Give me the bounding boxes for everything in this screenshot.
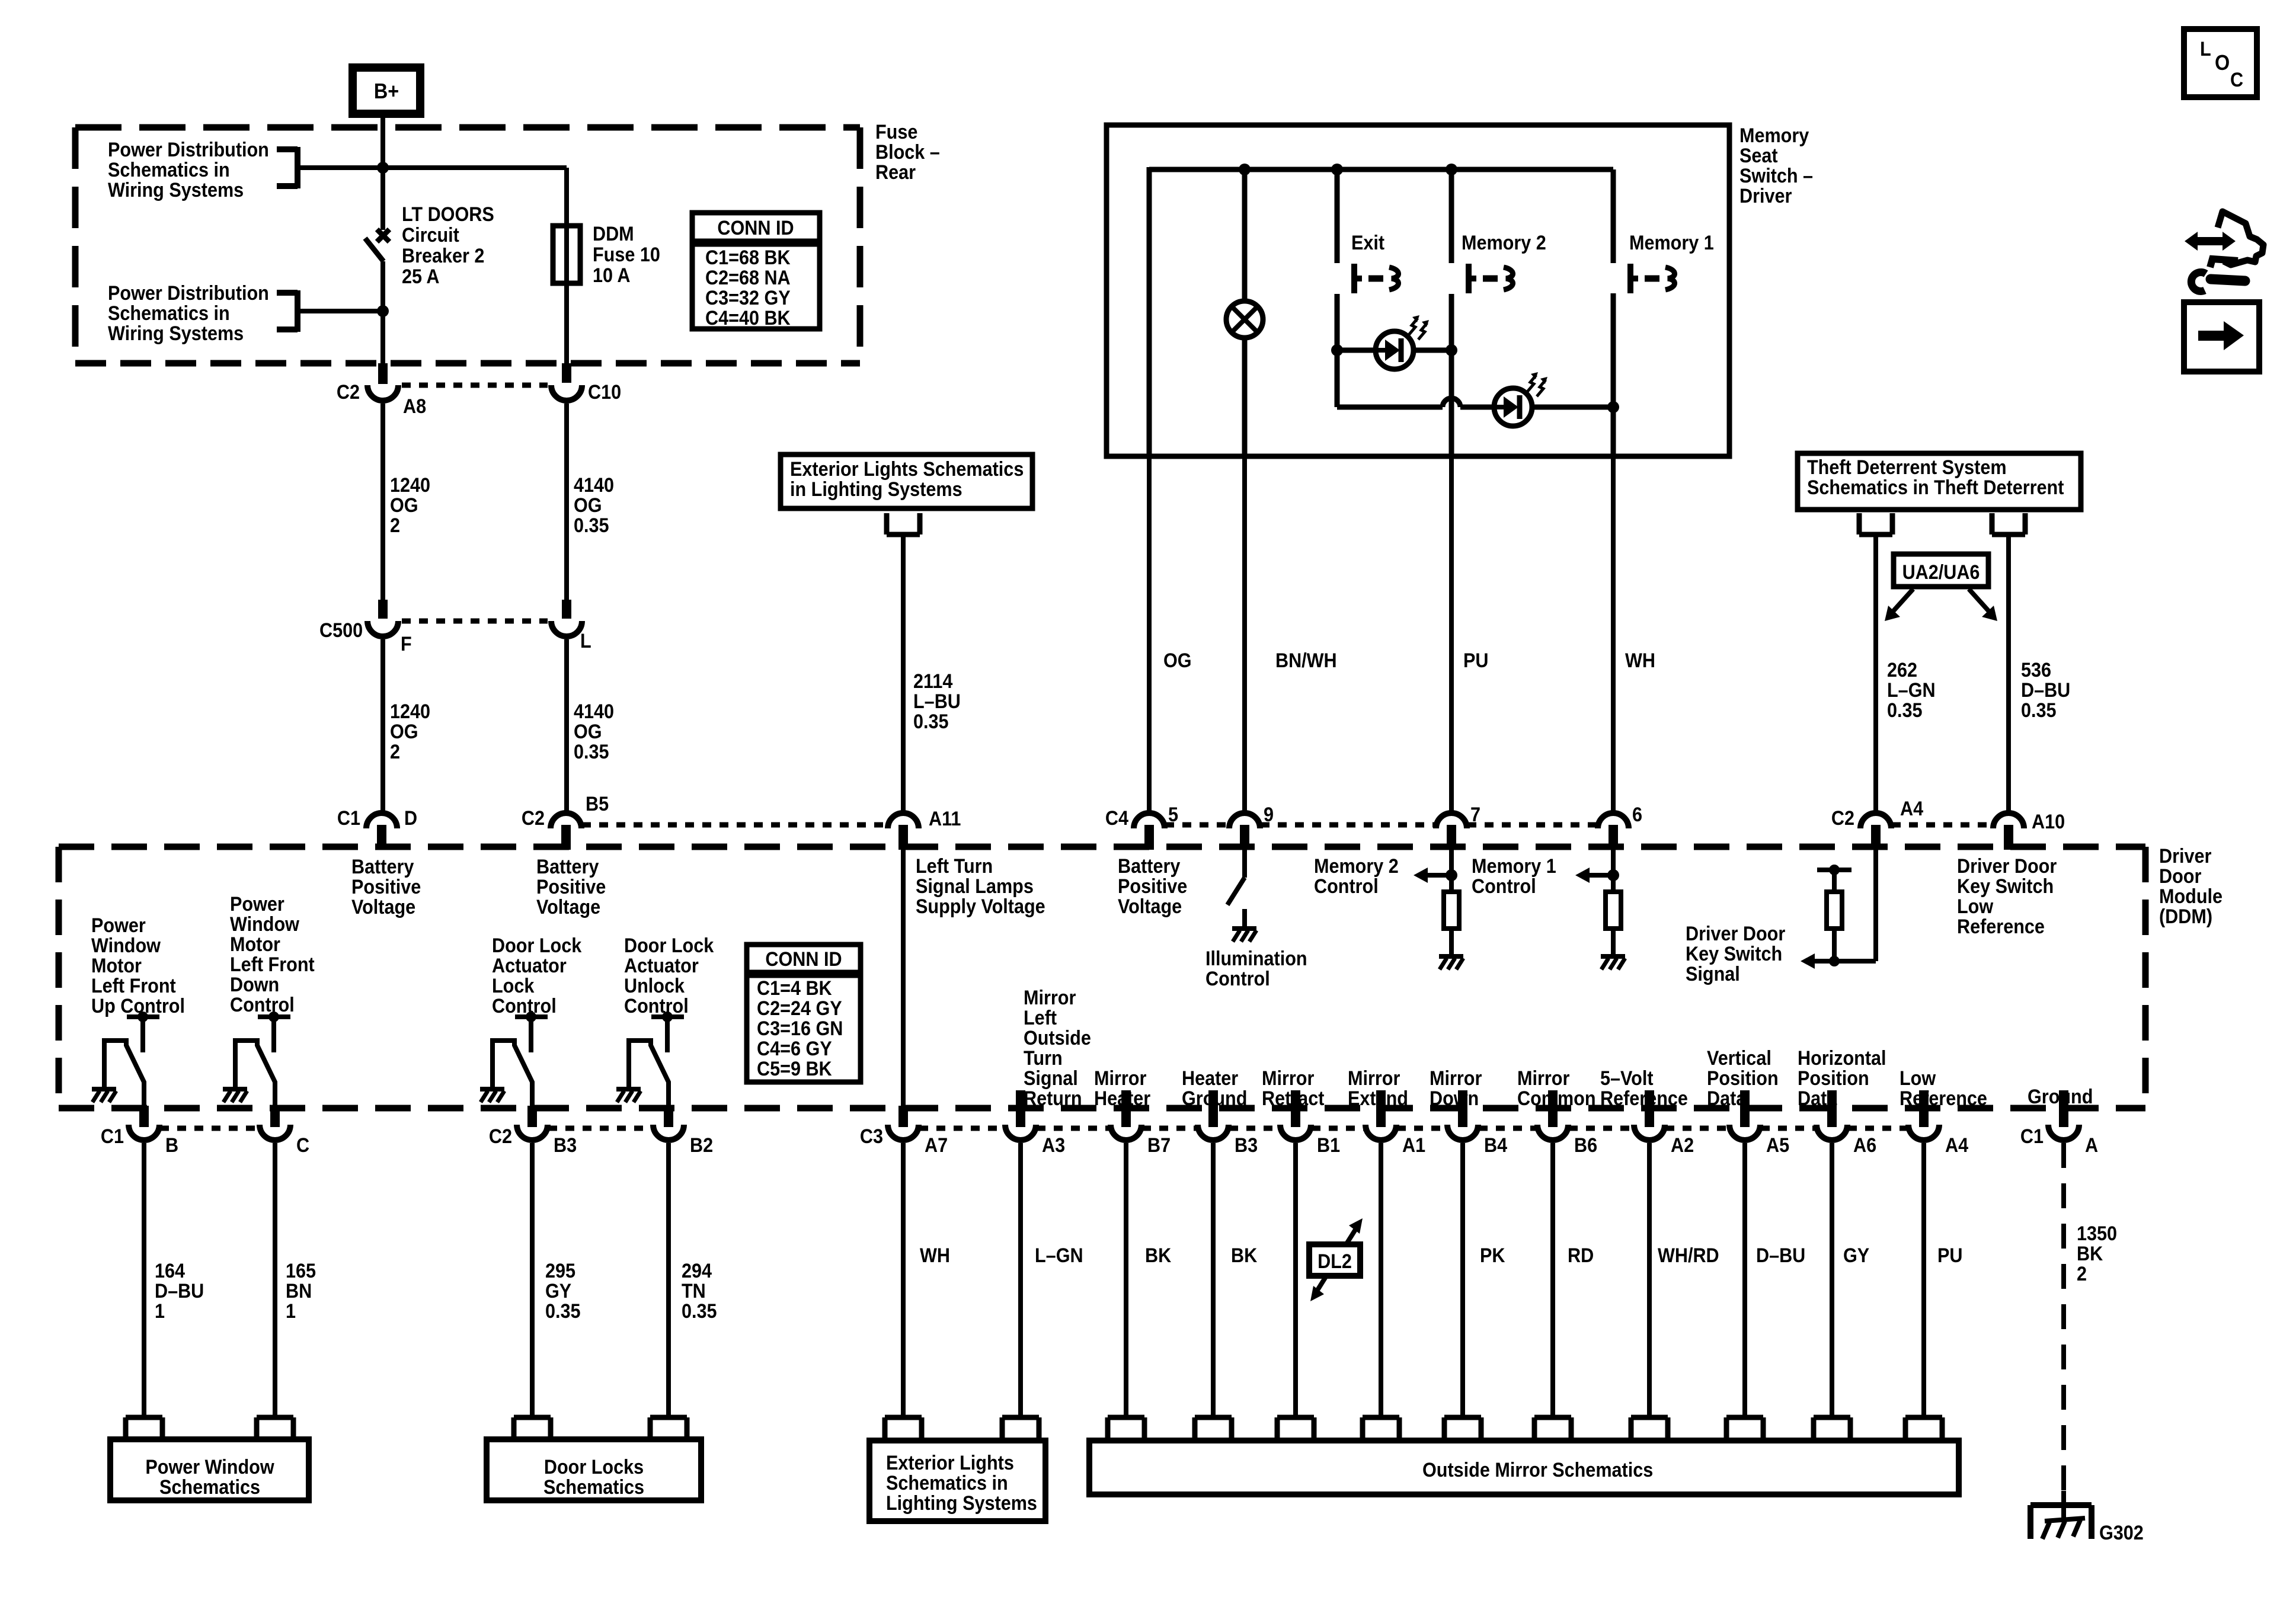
- box Outside Mirror Schematics: [1089, 1417, 1959, 1494]
- table CONN ID (fuse block): [692, 213, 820, 329]
- svg-text:Mirror: Mirror: [1430, 1067, 1482, 1090]
- svg-text:1: 1: [155, 1300, 165, 1323]
- svg-text:Block –: Block –: [875, 141, 940, 164]
- wire 4140 OG 0.35 (C10 to L): [567, 404, 614, 601]
- svg-text:C2: C2: [489, 1125, 512, 1148]
- svg-text:A7: A7: [925, 1134, 948, 1157]
- switch power window up driver: [92, 1012, 159, 1109]
- svg-text:Signal Lamps: Signal Lamps: [916, 875, 1034, 898]
- svg-text:Control: Control: [230, 994, 295, 1016]
- connector pin B6 (DDM bottom): [1537, 1090, 1597, 1156]
- svg-text:B: B: [165, 1134, 178, 1157]
- label Power Window Motor Left Front Up Control: [91, 914, 185, 1017]
- svg-text:C5=9 BK: C5=9 BK: [757, 1058, 832, 1080]
- svg-text:A10: A10: [2032, 811, 2065, 833]
- label Driver Door Key Switch Low Reference: [1957, 855, 2057, 938]
- svg-text:DL2: DL2: [1318, 1250, 1352, 1273]
- connector C1 pin A (DDM bottom): [2020, 1090, 2098, 1156]
- connector pin 6: [1598, 804, 1642, 850]
- svg-text:C2: C2: [1831, 807, 1854, 830]
- svg-text:B3: B3: [1235, 1134, 1258, 1157]
- svg-text:Control: Control: [1205, 968, 1270, 990]
- svg-text:B4: B4: [1484, 1134, 1507, 1157]
- svg-text:Door Lock: Door Lock: [624, 934, 714, 957]
- switch Memory 1: [1629, 232, 1714, 293]
- label Ground: [2028, 1086, 2093, 1108]
- wire Exit column: [1331, 164, 1343, 407]
- wire WH/RD (A2): [1649, 1143, 1719, 1417]
- svg-text:Schematics: Schematics: [543, 1476, 644, 1499]
- svg-text:Wiring Systems: Wiring Systems: [108, 322, 244, 345]
- svg-text:C3: C3: [860, 1125, 883, 1148]
- box Exterior Lights Schematics in Lighting Systems (bottom): [869, 1417, 1045, 1521]
- svg-text:B7: B7: [1147, 1134, 1171, 1157]
- svg-text:2114: 2114: [913, 670, 952, 693]
- svg-text:Driver Door: Driver Door: [1686, 923, 1786, 945]
- svg-text:L–GN: L–GN: [1035, 1244, 1083, 1267]
- bracket callout 1: [277, 147, 383, 188]
- off-page bracket theft right: [1992, 513, 2025, 534]
- label Power Distribution callout 2: [108, 282, 269, 345]
- svg-text:Left Front: Left Front: [91, 975, 176, 997]
- label box UA2/UA6 with arrows: [1885, 554, 1997, 621]
- svg-text:Exterior Lights: Exterior Lights: [886, 1452, 1014, 1474]
- svg-text:Exit: Exit: [1351, 232, 1384, 254]
- svg-text:C1: C1: [337, 807, 360, 830]
- svg-text:B6: B6: [1574, 1134, 1597, 1157]
- svg-text:294: 294: [682, 1260, 712, 1282]
- svg-text:L–GN: L–GN: [1887, 679, 1936, 702]
- svg-text:C2=24 GY: C2=24 GY: [757, 997, 842, 1020]
- connector dashed link F-L: [402, 619, 548, 624]
- svg-text:Memory: Memory: [1739, 124, 1809, 147]
- switch door unlock driver: [616, 1012, 684, 1109]
- svg-text:1240: 1240: [390, 700, 430, 723]
- svg-text:Down: Down: [230, 974, 279, 996]
- svg-text:Unlock: Unlock: [624, 975, 685, 997]
- svg-text:Door Locks: Door Locks: [544, 1456, 644, 1478]
- svg-text:BN/WH: BN/WH: [1275, 649, 1337, 672]
- connector pin B4 (DDM bottom): [1447, 1090, 1507, 1156]
- connector C2 pin A4: [1831, 798, 1923, 850]
- svg-text:Key Switch: Key Switch: [1957, 875, 2054, 898]
- icon hand with double arrow and wrench: [2185, 212, 2263, 291]
- connector C2 pin B3 (DDM bottom): [489, 1106, 577, 1156]
- wire junction at breaker top: [377, 162, 389, 174]
- wire 4140 OG 0.35 (C500 to DDM C2 B5): [567, 639, 614, 811]
- connector dashed link 5-9-7-6: [1165, 822, 1597, 828]
- svg-text:Positive: Positive: [351, 876, 421, 898]
- svg-text:Schematics in: Schematics in: [108, 159, 230, 181]
- svg-text:Driver: Driver: [1739, 185, 1792, 207]
- svg-text:0.35: 0.35: [574, 741, 609, 763]
- label Mirror Retract: [1262, 1067, 1325, 1110]
- svg-text:6: 6: [1632, 804, 1642, 826]
- wire PK (B4): [1463, 1143, 1505, 1417]
- connector dashed link A8-C10: [402, 383, 548, 388]
- wire 295 GY 0.35: [532, 1143, 581, 1417]
- label Battery Positive Voltage (C1 D): [351, 856, 421, 918]
- svg-text:2: 2: [390, 741, 400, 763]
- connector pin 9: [1229, 804, 1274, 850]
- svg-text:Door: Door: [2159, 865, 2202, 888]
- illumination control switch: [1205, 850, 1307, 990]
- svg-text:PU: PU: [1463, 649, 1488, 672]
- svg-text:Power: Power: [91, 914, 146, 937]
- svg-text:WH: WH: [1625, 649, 1655, 672]
- wire 164 D-BU 1: [144, 1143, 204, 1417]
- svg-text:10 A: 10 A: [593, 264, 630, 287]
- label Mirror Down: [1430, 1067, 1482, 1110]
- svg-text:Module: Module: [2159, 885, 2223, 908]
- label Vertical Position Data: [1707, 1047, 1779, 1110]
- svg-text:1240: 1240: [390, 474, 430, 497]
- svg-text:Motor: Motor: [230, 933, 280, 956]
- svg-text:Heater: Heater: [1182, 1067, 1239, 1090]
- label Fuse Block - Rear: [875, 121, 940, 184]
- svg-text:164: 164: [155, 1260, 185, 1282]
- svg-text:A4: A4: [1900, 798, 1923, 820]
- wire Memory 1 column: [1611, 169, 1616, 456]
- svg-text:Mirror: Mirror: [1094, 1067, 1147, 1090]
- svg-text:BN: BN: [286, 1280, 312, 1302]
- svg-text:Schematics in: Schematics in: [108, 302, 230, 325]
- svg-text:C4=6 GY: C4=6 GY: [757, 1038, 832, 1060]
- svg-text:D–BU: D–BU: [1756, 1244, 1805, 1267]
- label Memory Seat Switch - Driver: [1739, 124, 1813, 207]
- LED D1: [1376, 315, 1429, 369]
- connector pin C (DDM bottom): [260, 1106, 309, 1156]
- label Battery Positive Voltage (C2 B5): [536, 856, 606, 918]
- connector C3 pin A7 (DDM bottom): [860, 1106, 948, 1156]
- connector C4 pin 5: [1105, 804, 1178, 850]
- svg-text:0.35: 0.35: [2021, 699, 2057, 722]
- circuit breaker CB2 (LT DOORS Circuit Breaker 2 25 A): [365, 203, 494, 363]
- svg-text:B5: B5: [586, 793, 609, 815]
- connector pin 7: [1436, 804, 1480, 850]
- connector pin A5 (DDM bottom): [1729, 1090, 1789, 1156]
- svg-text:Motor: Motor: [91, 955, 142, 977]
- svg-text:536: 536: [2021, 659, 2051, 681]
- svg-text:Outside Mirror Schematics: Outside Mirror Schematics: [1422, 1459, 1653, 1481]
- svg-text:Actuator: Actuator: [624, 955, 699, 977]
- svg-text:GY: GY: [1843, 1244, 1870, 1267]
- driver door module dashed box (DDM): [59, 847, 2145, 1108]
- svg-text:Mirror: Mirror: [1024, 987, 1076, 1009]
- svg-text:OG: OG: [390, 494, 418, 517]
- svg-text:Memory 2: Memory 2: [1314, 855, 1399, 878]
- lamp illumination (circle-X): [1226, 301, 1263, 338]
- memory 2 control arrow and resistor: [1314, 850, 1463, 969]
- connector pin A4 (DDM bottom): [1908, 1090, 1968, 1156]
- LED D2: [1494, 372, 1547, 426]
- svg-text:4140: 4140: [574, 474, 614, 497]
- svg-text:Power: Power: [230, 893, 284, 916]
- LED memory indicator row with hop over Memory2 column: [1337, 398, 1619, 413]
- svg-text:Horizontal: Horizontal: [1798, 1047, 1886, 1070]
- svg-text:Rear: Rear: [875, 161, 916, 184]
- connector pin B1 (DDM bottom): [1280, 1090, 1340, 1156]
- wire D-BU (A5): [1745, 1143, 1805, 1417]
- label Door Lock Actuator Lock Control: [492, 934, 582, 1017]
- svg-text:Schematics in Theft Deterrent: Schematics in Theft Deterrent: [1807, 476, 2064, 499]
- box Exterior Lights Schematics in Lighting Systems (top): [781, 454, 1032, 508]
- svg-text:0.35: 0.35: [913, 710, 949, 733]
- svg-text:C1: C1: [101, 1125, 124, 1148]
- svg-text:C: C: [2230, 69, 2243, 91]
- svg-text:L: L: [580, 630, 591, 652]
- svg-text:Lock: Lock: [492, 975, 535, 997]
- svg-text:A8: A8: [403, 395, 426, 418]
- svg-text:Down: Down: [1430, 1087, 1479, 1110]
- svg-text:Exterior Lights Schematics: Exterior Lights Schematics: [790, 458, 1024, 481]
- svg-text:Theft Deterrent System: Theft Deterrent System: [1807, 456, 2007, 479]
- svg-text:OG: OG: [390, 721, 418, 743]
- svg-text:Memory 1: Memory 1: [1472, 855, 1556, 878]
- svg-text:C2=68 NA: C2=68 NA: [705, 267, 791, 289]
- connector pin A2 (DDM bottom): [1634, 1090, 1694, 1156]
- svg-text:Left Front: Left Front: [230, 953, 315, 976]
- connector C500 pin F: [319, 600, 412, 655]
- connector dashed link A4-A10: [1892, 822, 1993, 828]
- svg-text:C10: C10: [588, 381, 621, 404]
- svg-text:A6: A6: [1853, 1134, 1876, 1157]
- svg-text:B1: B1: [1317, 1134, 1340, 1157]
- svg-text:0.35: 0.35: [574, 514, 609, 537]
- svg-text:PU: PU: [1937, 1244, 1962, 1267]
- svg-text:Power Distribution: Power Distribution: [108, 139, 269, 161]
- label Driver Door Module (DDM): [2159, 845, 2223, 928]
- label Left Turn Signal Lamps Supply Voltage: [916, 855, 1045, 918]
- svg-text:Driver: Driver: [2159, 845, 2212, 868]
- wire B+ down to breaker: [380, 114, 385, 230]
- svg-text:Control: Control: [1472, 875, 1536, 898]
- svg-text:Lighting Systems: Lighting Systems: [886, 1492, 1037, 1515]
- svg-text:Voltage: Voltage: [536, 896, 600, 918]
- svg-text:25 A: 25 A: [402, 265, 439, 288]
- box Power Window Schematics: [110, 1417, 309, 1500]
- svg-text:Circuit: Circuit: [402, 224, 459, 247]
- svg-text:Reference: Reference: [1900, 1087, 1987, 1110]
- label Mirror Common: [1517, 1067, 1596, 1110]
- svg-text:CONN ID: CONN ID: [765, 948, 842, 971]
- svg-text:Positive: Positive: [1118, 875, 1187, 898]
- label Mirror Heater: [1094, 1067, 1151, 1110]
- svg-text:Reference: Reference: [1600, 1087, 1688, 1110]
- wire A11 to A7 through DDM: [901, 850, 906, 1108]
- label Horizontal Position Data: [1798, 1047, 1886, 1110]
- switch door lock driver: [480, 1012, 548, 1109]
- connector C2 pin A8: [337, 363, 426, 417]
- wire WH to pin 6: [1613, 456, 1655, 811]
- svg-text:Return: Return: [1024, 1087, 1082, 1110]
- svg-text:Control: Control: [1314, 875, 1379, 898]
- switch Memory 2: [1462, 232, 1546, 293]
- svg-text:Signal: Signal: [1024, 1067, 1078, 1090]
- svg-text:F: F: [401, 633, 412, 655]
- svg-text:2: 2: [390, 514, 400, 537]
- bus wire in memory seat switch: [1149, 167, 1613, 172]
- svg-text:A1: A1: [1402, 1134, 1425, 1157]
- svg-text:C4=40 BK: C4=40 BK: [705, 307, 791, 329]
- wire BN/WH to pin 9: [1245, 456, 1337, 811]
- svg-text:Reference: Reference: [1957, 916, 2045, 938]
- LED exit indicator row: [1331, 344, 1457, 356]
- wire lamp column: [1239, 164, 1251, 456]
- svg-text:C: C: [296, 1134, 309, 1157]
- box Door Locks Schematics: [487, 1417, 701, 1500]
- wire BK (B3): [1213, 1143, 1258, 1417]
- svg-text:Fuse 10: Fuse 10: [593, 244, 660, 266]
- svg-text:295: 295: [545, 1260, 575, 1282]
- svg-text:Control: Control: [624, 995, 689, 1017]
- connector pin B3 (DDM bottom): [1198, 1090, 1258, 1156]
- connector dashed link A7..A4: [919, 1126, 1908, 1131]
- wire branch to DDM fuse: [383, 168, 567, 363]
- wire OG column: [1147, 167, 1152, 456]
- svg-text:BK: BK: [2077, 1243, 2103, 1265]
- connector C10: [551, 363, 621, 403]
- connector C500 pin L: [551, 600, 591, 652]
- svg-text:RD: RD: [1568, 1244, 1594, 1267]
- wire L-GN (A3): [1021, 1143, 1083, 1417]
- svg-text:WH: WH: [920, 1244, 950, 1267]
- connector pin A3 (DDM bottom): [1005, 1090, 1065, 1156]
- svg-text:Turn: Turn: [1024, 1047, 1063, 1070]
- svg-text:2: 2: [2077, 1263, 2087, 1285]
- bracket callout 2: [277, 290, 383, 332]
- svg-text:Up Control: Up Control: [91, 995, 185, 1017]
- svg-text:B3: B3: [554, 1134, 577, 1157]
- svg-text:A5: A5: [1766, 1134, 1789, 1157]
- connector dashed link B3-B2: [548, 1126, 653, 1131]
- wire 2114 L-BU 0.35 to pin A11: [903, 534, 961, 811]
- wire 536 D-BU 0.35 to pin A10: [2009, 534, 2070, 811]
- memory seat switch box: [1107, 125, 1729, 456]
- svg-text:A: A: [2085, 1134, 2098, 1157]
- svg-text:OG: OG: [574, 494, 602, 517]
- fuse block dashed box (Fuse Block - Rear): [75, 127, 860, 363]
- power symbol B+: [353, 68, 420, 114]
- svg-text:Battery: Battery: [351, 856, 414, 878]
- svg-text:Signal: Signal: [1686, 963, 1740, 985]
- svg-text:1: 1: [286, 1300, 296, 1323]
- wire 262 L-GN 0.35 to pin C2 A4: [1876, 534, 1936, 811]
- svg-text:Supply Voltage: Supply Voltage: [916, 895, 1045, 918]
- svg-text:Schematics: Schematics: [159, 1476, 260, 1499]
- svg-text:Actuator: Actuator: [492, 955, 567, 977]
- switch Exit: [1351, 232, 1399, 293]
- svg-text:C3=32 GY: C3=32 GY: [705, 287, 791, 309]
- connector dashed link B-C: [160, 1126, 259, 1131]
- connector pin B2 (DDM bottom): [653, 1106, 713, 1156]
- svg-text:Illumination: Illumination: [1205, 948, 1307, 970]
- svg-text:Mirror: Mirror: [1517, 1067, 1570, 1090]
- svg-text:Breaker 2: Breaker 2: [402, 245, 484, 267]
- label Mirror Left Outside Turn Signal Return: [1024, 987, 1091, 1110]
- svg-text:Memory 1: Memory 1: [1629, 232, 1714, 254]
- svg-text:DDM: DDM: [593, 223, 634, 245]
- connector pin B7 (DDM bottom): [1111, 1090, 1171, 1156]
- svg-text:D: D: [404, 807, 417, 830]
- driver door key switch signal circuit: [1686, 850, 1876, 985]
- svg-text:C2: C2: [337, 381, 360, 404]
- label Power Window Motor Left Front Down Control: [230, 893, 315, 1016]
- label Mirror Extend: [1348, 1067, 1408, 1110]
- svg-text:C4: C4: [1105, 807, 1128, 830]
- label Low Reference: [1900, 1067, 1987, 1110]
- svg-text:A11: A11: [929, 808, 961, 830]
- svg-text:(DDM): (DDM): [2159, 905, 2212, 928]
- icon LOC box: [2184, 29, 2257, 97]
- svg-text:Positive: Positive: [536, 876, 606, 898]
- svg-text:Voltage: Voltage: [1118, 895, 1182, 918]
- svg-text:PK: PK: [1480, 1244, 1505, 1267]
- svg-text:Window: Window: [230, 913, 300, 936]
- label Heater Ground: [1182, 1067, 1247, 1110]
- connector C1 pin B (DDM bottom): [101, 1106, 178, 1156]
- memory 1 control arrow and resistor: [1472, 850, 1625, 969]
- svg-text:Outside: Outside: [1024, 1027, 1091, 1049]
- svg-text:GY: GY: [545, 1280, 572, 1302]
- svg-text:B+: B+: [374, 79, 399, 103]
- svg-text:Battery: Battery: [536, 856, 599, 878]
- wire 294 TN 0.35: [669, 1143, 717, 1417]
- svg-text:Low: Low: [1957, 895, 1994, 918]
- svg-text:Key Switch: Key Switch: [1686, 943, 1782, 965]
- svg-text:UA2/UA6: UA2/UA6: [1902, 561, 1980, 584]
- connector dashed link B5-A11: [582, 822, 887, 828]
- svg-text:B2: B2: [690, 1134, 713, 1157]
- svg-text:Battery: Battery: [1118, 855, 1180, 878]
- wire PU (A4): [1924, 1143, 1962, 1417]
- svg-text:Vertical: Vertical: [1707, 1047, 1771, 1070]
- svg-text:Voltage: Voltage: [351, 896, 415, 918]
- svg-text:Window: Window: [91, 934, 161, 957]
- wire 165 BN 1: [275, 1143, 316, 1417]
- svg-text:G302: G302: [2099, 1522, 2144, 1544]
- svg-text:Low: Low: [1900, 1067, 1936, 1090]
- icon arrow box: [2184, 302, 2259, 372]
- box Theft Deterrent System Schematics in Theft Deterrent: [1798, 453, 2081, 510]
- svg-text:WH/RD: WH/RD: [1658, 1244, 1719, 1267]
- svg-text:C2: C2: [522, 807, 545, 830]
- svg-text:Memory 2: Memory 2: [1462, 232, 1546, 254]
- svg-text:C1=4 BK: C1=4 BK: [757, 977, 832, 1000]
- label Door Lock Actuator Unlock Control: [624, 934, 714, 1017]
- off-page bracket exterior lights: [887, 513, 920, 534]
- svg-text:Schematics in: Schematics in: [886, 1472, 1008, 1494]
- svg-text:4140: 4140: [574, 700, 614, 723]
- svg-text:Position: Position: [1798, 1067, 1869, 1090]
- label 5-Volt Reference: [1600, 1067, 1688, 1110]
- wire BK (B7): [1126, 1143, 1172, 1417]
- svg-text:5–Volt: 5–Volt: [1600, 1067, 1654, 1090]
- wire B1 with DL2 tag: [1293, 1143, 1298, 1417]
- fuse DDM Fuse 10 10A: [553, 223, 660, 287]
- wire PU to pin 7: [1451, 456, 1488, 811]
- svg-text:L–BU: L–BU: [913, 690, 961, 713]
- svg-text:Mirror: Mirror: [1348, 1067, 1400, 1090]
- svg-text:Fuse: Fuse: [875, 121, 917, 143]
- svg-text:C500: C500: [319, 619, 363, 642]
- svg-text:A2: A2: [1671, 1134, 1694, 1157]
- svg-text:Left: Left: [1024, 1007, 1057, 1029]
- svg-text:165: 165: [286, 1260, 316, 1282]
- connector C1 pin D: [337, 807, 417, 850]
- svg-text:Seat: Seat: [1739, 145, 1778, 167]
- svg-text:Control: Control: [492, 995, 557, 1017]
